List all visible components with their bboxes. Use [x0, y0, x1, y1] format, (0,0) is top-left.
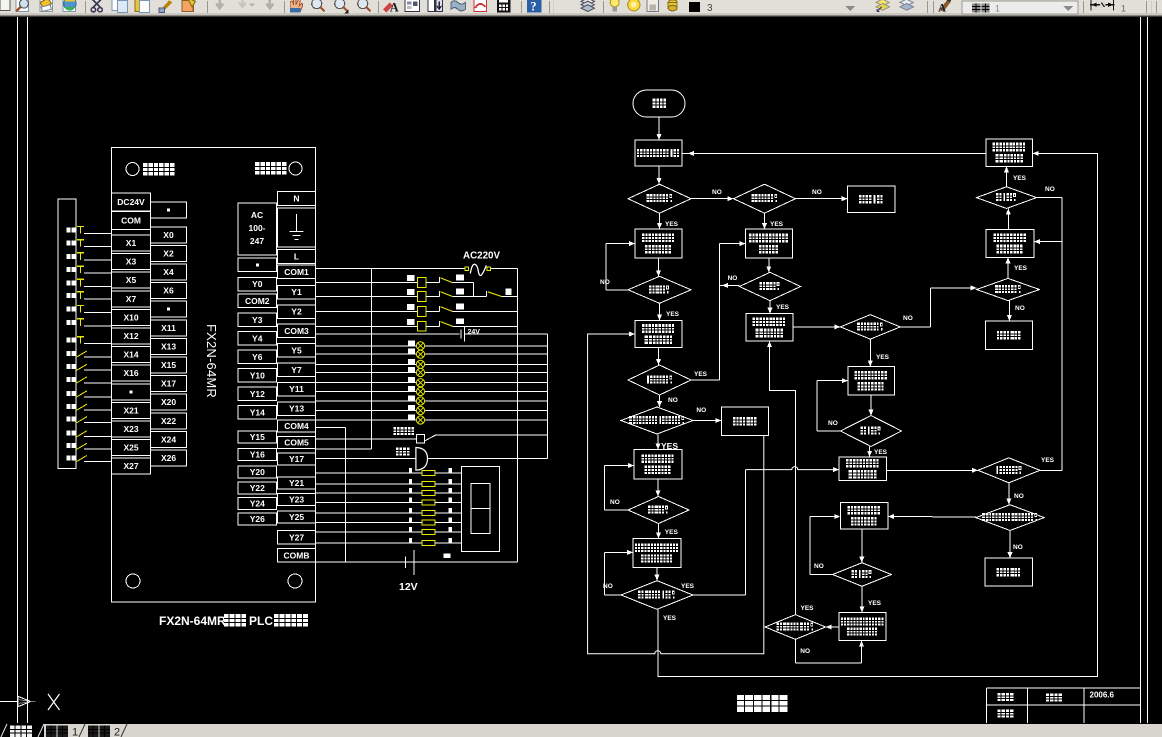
vertical bus 2 (24V line) [547, 334, 549, 459]
wire output to contactor coil KM4 [316, 325, 418, 327]
PLC input terminal cell X15 [151, 357, 187, 373]
svg-text:247: 247 [250, 236, 264, 246]
PLC FX2N-64MR body outline [112, 148, 316, 603]
wire segment display pin g row [316, 531, 422, 533]
flow 开门 col2 to 2楼呼叫 col3 [793, 326, 841, 328]
wire output to contactor coil KM1 [316, 296, 418, 298]
wire input row SB6 to PLC [84, 298, 112, 300]
wire indicator lamp HL8 row [316, 410, 548, 412]
toolbar separator [521, 1, 523, 13]
interlock contact [486, 291, 488, 296]
PLC input terminal cell X6 [151, 283, 187, 299]
flowchart decision 到2楼或1楼? [621, 581, 693, 610]
svg-text:NO: NO [603, 583, 613, 590]
toolbar icon paste [135, 0, 150, 13]
toolbar icon undo-drop disabled [239, 0, 255, 7]
svg-text:Y21: Y21 [289, 478, 304, 488]
PLC output terminal cell Y3 [238, 313, 277, 327]
vertical wire COM5 riser [370, 269, 372, 450]
wire indicator lamp HL6 row [316, 391, 548, 393]
wire COM5 to riser [316, 448, 371, 450]
svg-text:NO: NO [600, 279, 610, 286]
resistor R6 [422, 520, 435, 525]
coil label KM3 [407, 304, 415, 310]
wire segment display pin h row [316, 542, 422, 544]
svg-text:YES: YES [681, 583, 695, 590]
wire input row SQ6 to PLC [84, 422, 112, 424]
limit switch contact SQ4 [76, 391, 87, 398]
svg-text:NO: NO [812, 189, 822, 196]
input device label SQ4 [67, 391, 71, 396]
limit switch contact SQ1 [76, 351, 87, 358]
wire indicator lamp HL3 row [316, 363, 548, 365]
toolbar icon layer freeze sun [628, 0, 640, 11]
PLC earth ground symbol cell [278, 208, 316, 247]
push button switch SB9 [77, 336, 84, 338]
wire segment display pin d row [316, 502, 422, 504]
toolbar icon zoom previous [358, 0, 371, 11]
PLC input terminal cell X21 [112, 402, 151, 418]
input terminal strip outline [58, 199, 76, 469]
svg-text:NO: NO [668, 397, 678, 404]
PLC output terminal cell Y24 [238, 498, 277, 510]
PLC output terminal cell AC 100-247 [238, 203, 277, 255]
resistor R2 [422, 482, 435, 487]
toolbar separator [85, 1, 87, 13]
svg-text:DC24V: DC24V [117, 197, 145, 207]
NO contact KM1 [438, 291, 440, 297]
wire resistor R5 to display [435, 512, 462, 514]
NO contact KM3 [438, 306, 440, 312]
limit switch contact S3 [76, 455, 87, 462]
toolbar icon calculator [497, 0, 510, 13]
wire output to contactor coil KM2 [316, 282, 418, 284]
svg-text:X21: X21 [123, 405, 138, 415]
seven segment display outer box [462, 466, 500, 551]
flow NO 2楼呼叫 to 停在1楼 [796, 198, 848, 200]
svg-text:YES: YES [876, 354, 890, 361]
PLC input terminal cell X24 [151, 431, 187, 447]
svg-text:COMB: COMB [284, 550, 310, 560]
contact label KM1 [456, 289, 464, 295]
flow NO 到2楼或1楼 loop [605, 594, 621, 596]
toolbar icon undo disabled [216, 0, 223, 8]
svg-text:YES: YES [770, 221, 784, 228]
flow NO 到1楼 loop col3 [817, 430, 840, 432]
svg-text:YES: YES [1041, 457, 1055, 464]
wire contact KM3 to bus 1 [453, 311, 518, 313]
PLC output terminal cell Y20 [238, 466, 277, 478]
resistor R7 [422, 530, 435, 535]
flow 下降 lower to 到1楼 lower [861, 529, 863, 563]
PLC output terminal cell COM1 [278, 265, 316, 279]
PLC input terminal cell X14 [112, 347, 151, 363]
svg-text:A: A [390, 0, 399, 14]
svg-text:Y20: Y20 [250, 467, 265, 477]
svg-text:YES: YES [663, 615, 677, 622]
PLC input terminal cell X5 [112, 272, 151, 288]
pin mark left R3 [409, 488, 412, 493]
svg-text:Y2: Y2 [291, 307, 302, 317]
flow NO 4楼呼叫 to 停在2楼 col4 [1008, 301, 1010, 321]
pin mark right R8 [449, 538, 453, 543]
svg-text:Y0: Y0 [252, 279, 263, 289]
PLC input terminal cell X22 [151, 413, 187, 429]
svg-text:YES: YES [665, 221, 679, 228]
svg-text:NO: NO [1013, 544, 1023, 551]
flow NO 2楼上呼叫3楼呼叫 to 停在3楼 [1009, 530, 1011, 558]
limit switch contact SQ3 [76, 377, 87, 384]
title block name 石强 [1046, 694, 1053, 702]
AC220V sine wave symbol [470, 264, 486, 275]
flow YES 3楼呼叫 down [659, 213, 661, 229]
toolbar icon layer bulb [610, 0, 619, 11]
pin mark right R2 [449, 479, 453, 484]
wire coil KM2 to contact [426, 282, 439, 284]
toolbar icon dimension style [1090, 0, 1115, 10]
svg-text:L: L [294, 251, 299, 261]
toolbar icon plot-partial [0, 0, 10, 10]
svg-text:X25: X25 [123, 443, 138, 453]
svg-text:Y4: Y4 [252, 333, 263, 343]
input device label SB9 [67, 338, 71, 343]
svg-text:YES: YES [666, 311, 680, 318]
svg-text:YES: YES [874, 449, 888, 456]
input device label SQ5 [67, 404, 71, 409]
svg-text:1: 1 [72, 727, 78, 737]
lamp label HL7 [408, 396, 415, 401]
svg-text:X3: X3 [126, 257, 137, 267]
flow arrow init to 3楼呼叫 [658, 166, 660, 184]
PLC output terminal cell N [278, 192, 316, 206]
coil label KM2 [407, 275, 415, 281]
flow YES 3楼下呼叫 down [657, 434, 659, 449]
PLC output terminal cell Y21 [278, 477, 316, 489]
toolbar icon zoom window [335, 0, 349, 14]
PLC output terminal cell Y10 [238, 369, 277, 383]
limit switch contact SQ5 [76, 404, 87, 411]
PLC input terminal cell X3 [112, 254, 151, 270]
flowchart decision 1楼呼叫? (col4) [978, 458, 1040, 483]
svg-text:Y12: Y12 [250, 389, 265, 399]
svg-text:AC: AC [251, 210, 263, 220]
indicator lamp HL1 [416, 342, 424, 350]
PLC bottom left circle [126, 574, 140, 588]
svg-text:2006.6: 2006.6 [1090, 691, 1115, 700]
svg-text:X2: X2 [163, 248, 174, 258]
PLC output terminal cell Y1 [278, 285, 316, 299]
svg-text:X0: X0 [163, 230, 174, 240]
toolbar icon text style brush [938, 0, 951, 14]
limit switch contact S1 [76, 431, 87, 438]
flow feed into 开门 col3 with hop [746, 467, 833, 470]
flowchart decision 2楼上呼叫3楼呼叫? [976, 505, 1044, 531]
flowchart process 开门延时6S关门 (col4) [986, 139, 1033, 167]
toolbar style combo box [962, 1, 1078, 14]
svg-text:YES: YES [694, 371, 708, 378]
PLC input terminal cell X25 [112, 440, 151, 456]
indicator lamp HL9 [416, 416, 424, 424]
coil label KM1 [407, 289, 415, 295]
PLC output terminal cell Y5 [278, 344, 316, 358]
wire segment display pin f row [316, 522, 422, 524]
toolbar separator [603, 1, 605, 13]
wire interlock to bus 1 [502, 296, 518, 298]
wire input row SQ4 to PLC [84, 396, 112, 398]
PLC input side circle [126, 163, 139, 176]
flow YES 到1楼 lower to 运动反向上升 [861, 586, 863, 612]
flowchart decision 到2楼或3楼? [765, 615, 826, 640]
push button switch SB6 [77, 291, 84, 293]
flow 下降 col3 to 到1楼 [870, 395, 872, 416]
wire coil KM3 to contact [426, 311, 439, 313]
PLC output terminal cell dot (col C) [238, 258, 277, 272]
flow YES 到2楼或1楼 right to 开门 col3 [693, 594, 746, 596]
svg-text:X23: X23 [123, 424, 138, 434]
PLC output terminal cell COM5 [278, 437, 316, 449]
svg-text:NO: NO [814, 563, 824, 570]
flowchart decision 2楼呼叫? (col3) [840, 315, 900, 340]
toolbar separator [1083, 1, 1085, 13]
svg-text:Y3: Y3 [252, 315, 263, 325]
wire input row SQ2 to PLC [84, 369, 112, 371]
pin mark left R2 [409, 479, 412, 484]
svg-text:Y14: Y14 [250, 407, 265, 417]
PLC output terminal cell Y7 [278, 363, 316, 377]
indicator lamp HL2 [416, 350, 424, 358]
flow YES 4楼呼叫 up to 下降 col4 [1007, 257, 1009, 278]
contact label KM2 [456, 275, 464, 281]
NO contact KM2 [438, 277, 440, 283]
svg-text:X16: X16 [123, 368, 138, 378]
PLC input terminal cell X20 [151, 394, 187, 410]
indicator lamp HL6 [416, 387, 424, 395]
wire input row SB3 to PLC [84, 259, 112, 261]
flowchart process 开门延时6S关门 (col2) [746, 314, 793, 342]
PLC output terminal cell Y15 [238, 431, 277, 443]
flowchart decision 1楼呼叫? (col1) [628, 365, 691, 395]
flowchart process 升降机运动反向升降机上升 [839, 612, 886, 640]
pin mark right R4 [449, 498, 453, 503]
wire 24V battery to bus 2 [465, 333, 548, 335]
flow YES 到2楼 lower down [658, 523, 660, 538]
toolbar icon layer states [900, 0, 913, 10]
svg-text:Y10: Y10 [250, 370, 265, 380]
wire bell to bus 2 [428, 457, 548, 459]
title block outline [986, 687, 1140, 689]
PLC input terminal cell X16 [112, 365, 151, 381]
wire input row SB4 to PLC [84, 272, 112, 274]
svg-text:NO: NO [1014, 493, 1024, 500]
flow 下降 col4 up to 到1楼 col4 [1007, 209, 1009, 230]
lamp label HL1 [408, 340, 415, 345]
PLC output terminal cell Y14 [238, 406, 277, 420]
flow NO 到2楼或3楼 loop [794, 639, 796, 663]
svg-text:X11: X11 [161, 323, 176, 333]
flowchart decision 到1楼? (col3 lower) [833, 563, 892, 587]
input device label SQ3 [67, 377, 71, 382]
push button switch SB4 [77, 265, 84, 267]
svg-text:X4: X4 [163, 267, 174, 277]
flowchart start terminator 开始 [633, 90, 685, 117]
svg-text:Y7: Y7 [291, 365, 302, 375]
indicator lamp HL7 [416, 397, 424, 405]
wire indicator lamp HL9 row [316, 419, 548, 421]
flowchart process 升降机下降显示下降 (col3) [848, 367, 894, 395]
toolbar icon sheetset [451, 1, 466, 11]
wire buzzer to bus 2 [436, 434, 548, 436]
flowchart process 停在3楼 [985, 558, 1032, 586]
svg-text:COM4: COM4 [284, 421, 309, 431]
svg-text:NO: NO [903, 315, 913, 322]
svg-text:FX2N-64MR: FX2N-64MR [159, 614, 226, 628]
svg-text:NO: NO [712, 189, 722, 196]
toolbar separator [207, 1, 209, 13]
lamp label HL9 [408, 415, 415, 420]
svg-text:X1: X1 [126, 238, 137, 248]
drawing border inner left line [27, 17, 29, 723]
wire output to contactor coil KM3 [316, 311, 418, 313]
wire buzzer row [316, 438, 417, 440]
pin mark right R3 [449, 488, 453, 493]
pin mark right R6 [449, 518, 453, 523]
svg-text:3: 3 [707, 3, 713, 14]
UCS icon X axis arrow [0, 701, 18, 703]
toolbar separator [378, 1, 380, 13]
indicator lamp HL3 [416, 360, 424, 368]
flowchart process 初始化停在1楼 [635, 140, 682, 166]
tab 布局1 [46, 726, 57, 737]
push button switch SB7 [77, 305, 84, 307]
flowchart process 升降机下降显示下降 (col4) [986, 230, 1034, 258]
input device label SB5 [67, 280, 71, 285]
input device label S2 [67, 443, 71, 448]
flow YES 到2楼或3楼 riser to 开门 col2 [770, 341, 796, 614]
PLC output terminal cell Y27 [278, 531, 316, 545]
toolbar layer dropdown arrow [845, 6, 855, 11]
toolbar icon copy [112, 0, 128, 13]
svg-text:A: A [938, 2, 946, 14]
title block label 审核 [998, 710, 1005, 718]
svg-text:COM2: COM2 [245, 296, 270, 306]
wire indicator lamp HL4 row [316, 372, 548, 374]
lamp label HL2 [408, 349, 415, 354]
flow YES 到2楼 down [659, 303, 661, 320]
toolbar icon cut [91, 0, 102, 12]
PLC input terminal cell X0 [151, 227, 187, 243]
PLC input terminal cell X1 [112, 235, 151, 251]
toolbar icon layer lock [647, 0, 658, 11]
svg-text:COM: COM [121, 216, 141, 226]
input device label SQ2 [67, 364, 71, 369]
indicator lamp HL4 [416, 368, 424, 376]
PLC output side circle [289, 162, 302, 175]
PLC input terminal cell X7 [112, 291, 151, 307]
toolbar icon properties [383, 0, 399, 14]
PLC output terminal cell L [278, 249, 316, 263]
svg-text:FX2N-64MR: FX2N-64MR [204, 324, 219, 398]
input device label S3 [67, 455, 71, 460]
input device label S1 [67, 431, 71, 436]
12V battery short plate [404, 557, 406, 569]
lamp label HL8 [408, 405, 415, 410]
flowchart process 升降机运动反向升降机下降 [633, 539, 681, 568]
svg-text:Y15: Y15 [250, 432, 265, 442]
svg-text:NO: NO [1045, 186, 1055, 193]
toolbar icon redo disabled [266, 0, 273, 8]
push button switch SB1 [77, 226, 84, 228]
toolbar icon matchprop [159, 0, 172, 12]
input device label SB3 [67, 254, 71, 259]
flow NO 到1楼 col4 join riser [1037, 197, 1062, 199]
svg-text:?: ? [530, 0, 536, 13]
pin mark left R8 [409, 538, 412, 543]
svg-text:YES: YES [801, 605, 815, 612]
flow 升降机上升 col2 to 到3楼 [768, 258, 770, 272]
title block label 制图 [998, 693, 1005, 701]
input device label SQ1 [67, 351, 71, 356]
flow YES 到1楼 down col3 [869, 447, 871, 457]
pin mark left R4 [409, 498, 412, 503]
input device label SB4 [67, 267, 71, 272]
pin mark left R7 [409, 527, 412, 532]
flow NO 3楼下呼叫 to 停在2楼 [693, 420, 721, 422]
NO contact KM4 [438, 321, 440, 327]
flow 升降机上升 to 到2楼 [658, 258, 660, 276]
lamp label HL6 [408, 386, 415, 391]
flow NO 3楼呼叫 to 2楼呼叫 [691, 198, 733, 200]
wire input row SQ1 to PLC [84, 356, 112, 358]
input device label SB8 [67, 320, 71, 325]
flowchart decision 到3楼? [739, 272, 800, 300]
drawing border outer right line [1147, 17, 1149, 723]
svg-text:NO: NO [728, 275, 738, 282]
svg-text:YES: YES [665, 529, 679, 536]
pin mark right R7 [449, 527, 453, 532]
PLC input terminal cell X13 [151, 338, 187, 354]
PLC output terminal cell Y22 [238, 482, 277, 494]
PLC output terminal cell COM2 [238, 294, 277, 308]
PLC input side label 输入端 [143, 163, 153, 176]
tab 布局2 [88, 726, 99, 737]
wire segment display pin a row [316, 472, 422, 474]
flow NO 到3楼 to riser [719, 284, 739, 286]
PLC output terminal cell Y4 [238, 332, 277, 346]
PLC output terminal cell Y2 [278, 305, 316, 319]
svg-text:X5: X5 [126, 275, 137, 285]
toolbar icon make layer [876, 0, 889, 11]
wire indicator lamp HL2 row [316, 353, 548, 355]
wire input row S3 to PLC [84, 460, 112, 462]
toolbar icon publish [40, 0, 52, 11]
svg-text:Y1: Y1 [291, 287, 302, 297]
limit switch contact S2 [76, 443, 87, 450]
flow 开门 col3 to 1楼呼叫 col4 [887, 469, 978, 471]
AC220V source right terminal [487, 267, 491, 271]
flow YES 到1楼 col4 up to 开门 col4 [1006, 166, 1008, 186]
24V battery long plate [464, 327, 466, 342]
interlock contact label [506, 289, 512, 296]
svg-text:X10: X10 [123, 312, 138, 322]
indicator lamp HL8 [416, 406, 424, 414]
svg-text:Y6: Y6 [252, 352, 263, 362]
lamp label HL4 [408, 367, 415, 372]
toolbar icon layer color [668, 0, 677, 11]
svg-text:X14: X14 [123, 350, 138, 360]
PLC output terminal cell Y17 [278, 453, 316, 465]
contact label KM3 [456, 304, 464, 310]
flow YES 1楼呼叫 col4 riser [1040, 469, 1062, 471]
